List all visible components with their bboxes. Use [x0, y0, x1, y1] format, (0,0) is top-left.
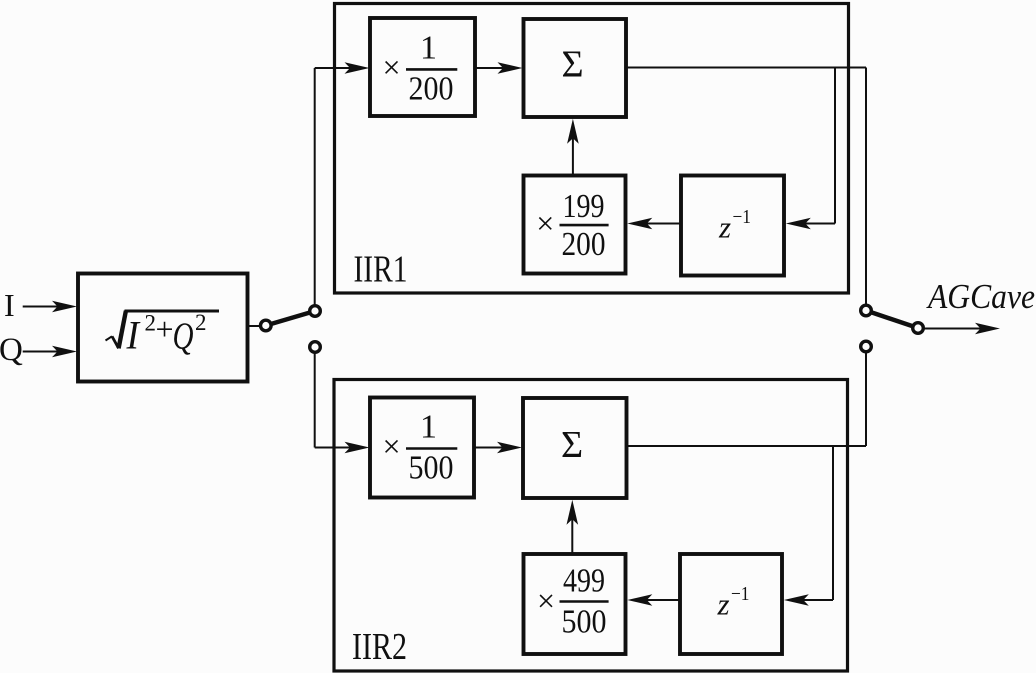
wire IIR1 feedback from output node down — [834, 68, 836, 224]
svg-text:499: 499 — [563, 563, 605, 600]
svg-text:Q: Q — [0, 332, 23, 368]
switch SW1 blade — [266, 311, 315, 326]
wire sigma1 output to right — [626, 67, 866, 69]
IIR1 outer box — [335, 4, 849, 294]
svg-text:500: 500 — [409, 450, 454, 487]
svg-text:1: 1 — [420, 30, 437, 67]
wire SW1 up to IIR1 input — [314, 68, 316, 305]
switch SW1 throw contact to IIR2 — [310, 342, 321, 353]
svg-text:Σ: Σ — [561, 424, 583, 466]
wire arrow x1/200 to sigma1 — [475, 62, 523, 74]
switch SW2 pole contact — [913, 323, 924, 334]
wire arrow into x1/500 block — [315, 442, 370, 454]
wire arrow z-1 to x499/500 — [627, 594, 680, 606]
IIR2 outer box — [334, 380, 848, 672]
svg-text:IIR2: IIR2 — [352, 626, 407, 668]
svg-text:I: I — [126, 313, 141, 358]
wire arrow x1/500 to sigma2 — [474, 442, 522, 454]
switch SW2 throw contact from IIR1 — [861, 305, 872, 316]
svg-text:+: + — [155, 311, 173, 347]
svg-text:×: × — [382, 428, 400, 464]
switch SW1 pole contact — [261, 320, 272, 331]
svg-text:−1: −1 — [731, 583, 750, 605]
svg-text:1: 1 — [420, 409, 437, 446]
switch SW1 throw contact to IIR1 — [310, 306, 321, 317]
node Q input label — [0, 332, 23, 368]
svg-text:AGCave: AGCave — [926, 277, 1035, 316]
delay block z-1 (IIR1) — [681, 176, 784, 276]
wire arrow x499/500 up into sigma2 — [567, 500, 579, 554]
summer block sigma1 — [524, 19, 627, 117]
svg-text:200: 200 — [409, 71, 454, 108]
wire arrow z-1 to x199/200 — [627, 218, 681, 230]
wire arrow x199/200 up into sigma1 — [567, 119, 579, 176]
wire stub from magnitude block to switch SW1 — [248, 325, 261, 327]
svg-text:z: z — [718, 210, 731, 245]
svg-text:2: 2 — [145, 311, 157, 336]
wire IIR2 feedback from output node down — [832, 446, 834, 600]
svg-text:×: × — [382, 49, 400, 85]
svg-text:199: 199 — [563, 188, 605, 225]
delay block z-1 (IIR2) — [680, 554, 782, 654]
magnitude block sqrt(I^2+Q^2) — [78, 274, 248, 382]
multiplier block x 1/200 — [370, 18, 475, 116]
svg-text:×: × — [537, 582, 555, 618]
svg-text:500: 500 — [562, 604, 607, 641]
svg-text:2: 2 — [195, 310, 207, 335]
wire sigma2 output to right — [627, 445, 867, 447]
wire arrow into x1/200 block — [315, 62, 370, 74]
switch SW2 blade — [866, 311, 918, 329]
svg-text:200: 200 — [562, 226, 606, 263]
svg-text:−1: −1 — [733, 206, 752, 228]
svg-text:z: z — [717, 587, 730, 622]
wire arrow feedback into z-1 block — [786, 218, 835, 230]
svg-text:Q: Q — [173, 316, 194, 358]
multiplier block x 199/200 — [524, 176, 626, 274]
wire arrow feedback into z-1 block (IIR2) — [784, 594, 833, 606]
summer block sigma2 — [523, 398, 627, 498]
svg-text:I: I — [4, 287, 15, 323]
svg-text:IIR1: IIR1 — [354, 249, 408, 291]
multiplier block x 1/500 — [370, 398, 474, 498]
wire Q input arrow — [23, 346, 77, 358]
switch SW2 throw contact from IIR2 — [861, 341, 872, 352]
svg-text:×: × — [536, 205, 554, 241]
multiplier block x 499/500 — [524, 554, 626, 654]
wire down to switch SW2 top throw — [865, 68, 867, 305]
wire output arrow from SW2 — [925, 323, 1001, 335]
wire up to switch SW2 bottom throw — [865, 353, 867, 446]
wire SW1 down to IIR2 input — [314, 354, 316, 448]
wire I input arrow — [23, 301, 77, 313]
node I input label — [4, 287, 15, 323]
svg-text:Σ: Σ — [561, 44, 583, 86]
